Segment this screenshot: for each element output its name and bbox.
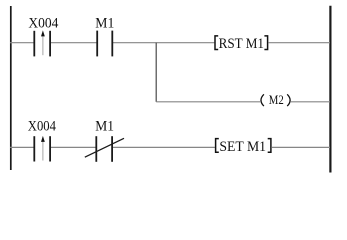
right power rail (329, 6, 331, 173)
coil (M2) (261, 93, 290, 107)
wire rung2 seg X004-to-M1 (51, 146, 96, 148)
wire rung1 seg RST-to-rail (269, 42, 330, 44)
wire rung2 seg M1-to-SET (113, 146, 215, 148)
svg-text:M1: M1 (95, 118, 114, 134)
contact X004 rising-edge (rung 1) (34, 30, 50, 56)
svg-text:M2: M2 (269, 93, 284, 107)
svg-text:RST M1: RST M1 (219, 36, 264, 52)
wire rung1 seg X004-to-M1 (51, 42, 97, 44)
svg-text:X004: X004 (28, 16, 58, 32)
contact X004 rising-edge (rung 2) (34, 136, 50, 162)
svg-text:SET M1: SET M1 (219, 139, 266, 155)
contact M1 normally-open (rung 1) (97, 31, 112, 57)
wire rung1 seg M1-to-RST (113, 42, 215, 44)
svg-text:M1: M1 (95, 16, 114, 32)
contact M1 normally-closed (rung 2) (85, 136, 124, 162)
wire branch seg M2-to-rail (291, 101, 330, 103)
wire rung2 seg rail-to-X004 (10, 146, 34, 148)
svg-text:X004: X004 (28, 118, 57, 134)
wire branch vertical at node after M1 (155, 43, 157, 102)
wire rung2 seg SET-to-rail (272, 146, 330, 148)
instruction [SET M1] (216, 139, 271, 156)
instruction [RST M1] (215, 36, 268, 52)
left power rail (10, 6, 12, 170)
wire rung1 seg rail-to-X004 (10, 42, 34, 44)
wire branch seg to M2 coil (156, 101, 260, 103)
